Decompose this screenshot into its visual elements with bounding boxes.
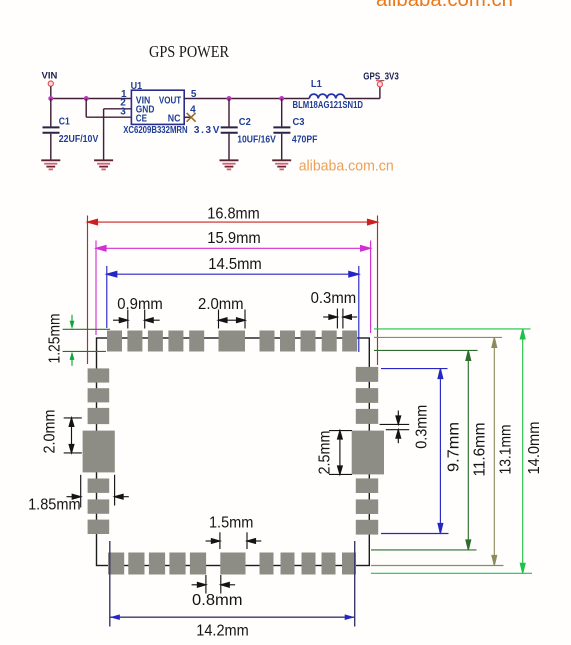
capacitor C3 designator label: [293, 117, 305, 128]
dimension 0.3mm (right pad gap): [380, 411, 410, 444]
U1 part number XC6209B332MRN: [123, 125, 188, 136]
svg-text:14.2mm: 14.2mm: [196, 622, 249, 639]
capacitor C1: [43, 127, 60, 132]
dimension 9.7mm (blue, right pads span): [381, 369, 449, 534]
svg-text:9.7mm: 9.7mm: [446, 422, 463, 472]
dimension 0.3mm (pad gap, top): [323, 309, 357, 329]
port VIN terminal: [48, 81, 53, 86]
dimension text 16.8mm: [207, 206, 260, 223]
svg-text:CE: CE: [136, 113, 147, 124]
U1 pin label CE: [136, 113, 147, 124]
svg-text:alibaba.com.cn: alibaba.com.cn: [299, 158, 394, 175]
dimension text 14.0mm: [526, 422, 543, 475]
module body outline: [97, 338, 370, 566]
capacitor C1 designator label: [59, 116, 70, 127]
dimension 14.2mm (blue, bottom pads span): [110, 541, 355, 627]
dimension text 1.85mm: [28, 497, 81, 514]
wire CE tap vertical: [85, 99, 87, 118]
inductor L1 designator label: [311, 79, 322, 90]
svg-text:BLM18AG121SN1D: BLM18AG121SN1D: [293, 100, 364, 111]
capacitor C2 designator label: [239, 117, 251, 128]
pin number 5: [191, 89, 197, 100]
svg-text:0.8mm: 0.8mm: [192, 592, 243, 609]
pin 4 NC stub: [184, 116, 191, 118]
dimension text 0.3mm top: [311, 290, 357, 307]
svg-text:C1: C1: [59, 116, 70, 127]
node GPS_3V3 label: [363, 72, 399, 83]
svg-text:1.25mm: 1.25mm: [47, 314, 64, 364]
dimension text 11.6mm: [472, 423, 489, 477]
node junction at C3: [279, 96, 284, 101]
dimension text 2.0mm left: [42, 410, 59, 454]
svg-text:0.9mm: 0.9mm: [117, 296, 163, 313]
dimension 13.1mm (olive, body height): [371, 337, 504, 565]
inductor L1 value BLM18AG121SN1D: [293, 100, 364, 111]
top pad row: [107, 331, 357, 352]
dimension 16.8mm (red, overall width): [88, 216, 378, 366]
pin number 1: [121, 89, 127, 100]
U1 pin label VIN: [136, 95, 151, 106]
svg-text:2.5mm: 2.5mm: [317, 431, 334, 475]
node junction at CE tap: [84, 96, 89, 101]
svg-text:XC6209B332MRN: XC6209B332MRN: [123, 125, 188, 136]
svg-text:14.5mm: 14.5mm: [208, 256, 262, 273]
ground below C3: [272, 160, 291, 169]
svg-text:U1: U1: [131, 81, 143, 92]
node junction at C1: [48, 96, 53, 101]
capacitor C1 value label 22UF/10V: [59, 134, 99, 145]
dimension 0.9mm (pad width, top): [113, 310, 160, 329]
svg-text:alibaba.com.cn: alibaba.com.cn: [376, 0, 513, 11]
svg-text:VIN: VIN: [42, 71, 58, 82]
wire VIN rail: [51, 98, 132, 100]
svg-text:22UF/10V: 22UF/10V: [59, 134, 99, 145]
svg-text:11.6mm: 11.6mm: [472, 423, 489, 477]
U1 pin label NC: [168, 113, 181, 124]
svg-text:3.3V: 3.3V: [194, 125, 220, 136]
pin number 2: [120, 98, 126, 109]
ground below C2: [220, 160, 239, 169]
U1 pin label GND: [136, 104, 155, 115]
dimension 2.5mm (large right pad height): [329, 431, 352, 475]
svg-text:2.0mm: 2.0mm: [198, 296, 244, 313]
svg-text:0.3mm: 0.3mm: [311, 290, 357, 307]
inductor L1 coil: [309, 94, 344, 98]
wire VIN drop: [50, 86, 52, 98]
left pad column: [83, 368, 115, 534]
wire C2 top: [228, 99, 230, 127]
svg-text:16.8mm: 16.8mm: [207, 206, 260, 223]
dimension text 9.7mm: [446, 422, 463, 472]
svg-text:1.85mm: 1.85mm: [28, 497, 81, 514]
ground below U1 GND pin: [94, 160, 113, 169]
svg-text:GPS POWER: GPS POWER: [149, 42, 230, 61]
svg-text:L1: L1: [311, 79, 322, 90]
dimension 1.25mm (green, pad height left): [63, 315, 110, 366]
dimension 2.0mm (left pads pitch): [64, 418, 82, 453]
dimension 14.0mm (bright green, overall height): [371, 329, 532, 573]
dimension 0.8mm (pad gap, bottom): [192, 575, 236, 594]
wire GND pin 2 drop: [103, 109, 105, 160]
capacitor C3 value label 470PF: [292, 135, 318, 146]
svg-text:GPS_3V3: GPS_3V3: [363, 72, 399, 83]
svg-text:1.5mm: 1.5mm: [209, 515, 254, 532]
schematic title GPS POWER: [149, 42, 230, 61]
bottom pad row: [108, 553, 356, 575]
svg-text:0.3mm: 0.3mm: [414, 405, 431, 449]
U1 pin label VOUT: [159, 95, 181, 106]
wire GND pin 2 horizontal: [104, 108, 132, 110]
wire C2 bottom: [228, 134, 230, 160]
dimension text 0.8mm: [192, 592, 243, 609]
watermark middle: [299, 158, 394, 175]
wire C3 bottom: [281, 134, 283, 160]
U1 voltage label 3.3V: [194, 125, 220, 136]
svg-text:VOUT: VOUT: [159, 95, 181, 106]
dimension text 15.9mm: [207, 230, 261, 247]
wire VOUT rail: [184, 98, 309, 100]
watermark top: [376, 0, 513, 11]
right pad column: [352, 367, 384, 535]
wire L1 to output: [345, 98, 380, 100]
dimension text 0.3mm right: [414, 405, 431, 449]
dimension text 0.9mm: [117, 296, 163, 313]
capacitor C2 value label 10UF/16V: [237, 135, 276, 146]
svg-text:470PF: 470PF: [292, 135, 318, 146]
ground below C1: [41, 160, 60, 169]
port GPS_3V3 terminal: [376, 81, 384, 87]
dimension text 14.2mm: [196, 622, 249, 639]
svg-text:15.9mm: 15.9mm: [207, 230, 261, 247]
pin number 4: [190, 104, 196, 115]
wire C1 bottom: [50, 134, 52, 160]
wire output riser: [379, 87, 381, 99]
wire C1 top: [50, 99, 52, 127]
capacitor C2: [221, 127, 238, 132]
dimension 15.9mm (magenta, body width): [96, 241, 371, 336]
dimension 1.85mm (large left pad width): [67, 475, 129, 508]
dimension 11.6mm (dark green, inner pad span): [371, 350, 478, 550]
capacitor C3: [273, 127, 290, 132]
U1 designator label: [131, 81, 143, 92]
dimension 2.0mm (wide pad, top): [219, 310, 246, 329]
dimension text 1.25mm: [47, 314, 64, 364]
node junction at C2: [227, 96, 232, 101]
dimension 1.5mm (wide pad, bottom): [206, 532, 262, 549]
svg-text:3: 3: [120, 107, 126, 118]
svg-text:14.0mm: 14.0mm: [526, 422, 543, 475]
no-connect X on pin 4: [187, 113, 196, 122]
svg-text:2.0mm: 2.0mm: [42, 410, 59, 454]
pin number 3: [120, 107, 126, 118]
wire CE tap horizontal to pin 3: [86, 116, 131, 118]
svg-text:NC: NC: [168, 113, 181, 124]
svg-text:C3: C3: [293, 117, 305, 128]
op-amp U1 regulator body: [131, 90, 184, 124]
dimension 14.5mm (blue, top pad span): [107, 266, 359, 352]
dimension text 13.1mm: [498, 425, 515, 475]
svg-text:10UF/16V: 10UF/16V: [237, 135, 276, 146]
svg-text:13.1mm: 13.1mm: [498, 425, 515, 475]
wire C3 top: [281, 99, 283, 127]
node VIN label: [42, 71, 58, 82]
dimension text 1.5mm: [209, 515, 254, 532]
dimension text 2.0mm top: [198, 296, 244, 313]
dimension text 14.5mm: [208, 256, 262, 273]
svg-text:C2: C2: [239, 117, 251, 128]
dimension text 2.5mm: [317, 431, 334, 475]
